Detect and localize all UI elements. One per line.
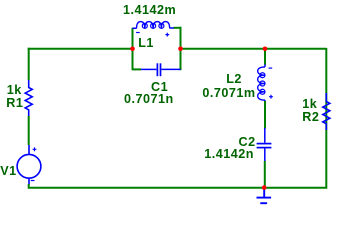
label R1 value: [7, 84, 22, 97]
label R1 name: [6, 97, 23, 110]
label L2 name: [226, 73, 242, 86]
wire bottom-left corner: [28, 184, 265, 188]
node dot ground: [262, 185, 267, 190]
wire top rail right: [181, 48, 327, 50]
label L1 name: [138, 37, 154, 50]
label R2 value: [302, 98, 317, 111]
L2 plus: [269, 95, 273, 99]
tank top green segment: [174, 27, 182, 29]
label C1 name: [151, 81, 168, 94]
node dot tank left: [130, 47, 135, 52]
wire L2-C2: [264, 101, 266, 129]
wire left rail upper: [28, 48, 30, 80]
wire bottom rail right + right rail: [265, 48, 327, 189]
L1 plus: [165, 33, 169, 37]
capacitor C1: [141, 63, 181, 76]
wire L2 branch upper: [264, 49, 266, 65]
capacitor C2: [257, 128, 272, 162]
tank box left vertical: [132, 28, 134, 70]
inductor L1 humps: [137, 22, 170, 29]
inductor L2 loops: [260, 73, 265, 95]
label L1 value: [123, 4, 176, 17]
tank bottom green segment: [133, 68, 142, 70]
V1 plus: [33, 147, 37, 151]
resistor R1: [25, 80, 32, 116]
inductor L2 leads: [264, 64, 266, 101]
wire left rail mid: [28, 116, 30, 145]
inductor L1 leads: [133, 27, 174, 29]
label C2 name: [239, 136, 256, 149]
node dot L2 top: [263, 47, 268, 52]
label C2 value: [204, 148, 254, 161]
label R2 name: [302, 111, 319, 124]
ground: [257, 188, 272, 203]
wire top rail left: [28, 48, 133, 50]
resistor R2: [323, 93, 330, 130]
label V1 name: [0, 165, 16, 178]
label L2 value: [202, 87, 255, 100]
inductor L2 humps: [258, 67, 265, 100]
inductor L1 loops: [142, 23, 164, 28]
L1 minus: [136, 32, 140, 34]
L2 minus: [269, 67, 273, 69]
V1 minus: [31, 180, 35, 182]
source V1: [17, 145, 41, 185]
label C1 value: [124, 93, 174, 106]
node dot tank right: [178, 47, 183, 52]
tank box right vertical: [180, 27, 182, 70]
wire C2-bottom: [264, 161, 266, 188]
